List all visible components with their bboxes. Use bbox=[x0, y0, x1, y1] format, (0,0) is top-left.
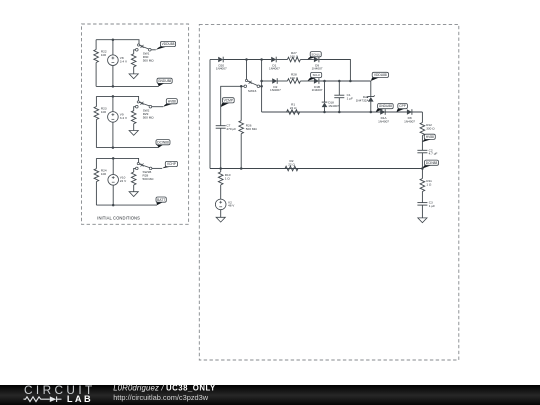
node R26 top junction bbox=[240, 85, 243, 88]
wire sub1 bottom rail bbox=[96, 85, 159, 87]
wire sub2 top rail bbox=[96, 96, 138, 101]
diode D18 bbox=[322, 103, 328, 108]
switch SW1B bbox=[136, 167, 139, 170]
capacitor C3 bbox=[417, 202, 427, 204]
node row3 C1 junction bbox=[338, 111, 341, 114]
voltage source V10 bbox=[108, 175, 119, 186]
diode D1A bbox=[380, 109, 385, 115]
ground sub1 bbox=[129, 74, 138, 79]
node row2 row1 junction bbox=[349, 80, 352, 83]
wire C3 to ground bbox=[421, 205, 423, 218]
wire row1 left segment bbox=[210, 59, 218, 61]
wire sub1 top rail bbox=[96, 40, 139, 44]
wire R28 to ground bbox=[133, 185, 135, 192]
wire V9 bottom bbox=[112, 122, 114, 148]
node sub3 top junction bbox=[112, 157, 115, 160]
footer bar bbox=[0, 385, 540, 405]
net flag DCIN88 left bbox=[156, 145, 163, 148]
wire sub3 left branch top bbox=[95, 158, 97, 168]
resistor R27 bbox=[287, 57, 300, 62]
diode D20 bbox=[218, 57, 223, 63]
wire row2 right segment bbox=[319, 80, 371, 82]
wire sub1 left branch bottom bbox=[95, 63, 97, 87]
net flag GNDU88 left bbox=[157, 83, 164, 86]
wire row1 right segment to corner bbox=[319, 60, 350, 82]
node bottom rail C7 junction bbox=[219, 167, 222, 170]
wire D21 top bbox=[370, 81, 372, 97]
node row2 D18 junction bbox=[323, 80, 326, 83]
wire row2 D2 to R28 bbox=[278, 80, 288, 82]
wire bottom rail bbox=[210, 168, 422, 170]
main circuit dashed box bbox=[199, 24, 459, 360]
net flag VCMP bbox=[221, 103, 230, 107]
wire V8 top bbox=[112, 40, 114, 55]
resistor R30 bbox=[131, 54, 136, 67]
wire row3 corner down bbox=[421, 112, 423, 123]
wire SW2 right stub bbox=[152, 106, 163, 108]
voltage source V2 bbox=[215, 199, 226, 210]
net flag BATT left bbox=[156, 202, 163, 205]
resistor R2 bbox=[285, 166, 298, 171]
ground sub2 bbox=[129, 131, 138, 136]
wire R10 to V2 bbox=[220, 185, 222, 199]
wire D18 top bbox=[324, 81, 326, 102]
ground V2 bbox=[216, 217, 225, 222]
net flag HV88 left bbox=[163, 104, 174, 107]
net flag SCALU bbox=[307, 57, 317, 60]
net flag DCIN88 main bbox=[422, 165, 432, 169]
wire C1 bottom bbox=[338, 98, 340, 112]
initial conditions dashed box bbox=[82, 24, 189, 224]
resistor R1 bbox=[287, 110, 300, 115]
wire DCIN to R11 bbox=[421, 169, 423, 179]
wire C2 to rail bbox=[421, 153, 423, 169]
node row1 bus junction bbox=[260, 58, 263, 61]
wire V2 to ground bbox=[220, 210, 222, 218]
wire V10 top bbox=[112, 158, 114, 174]
node bottom rail R26 junction bbox=[240, 167, 243, 170]
switch SW2 bbox=[136, 105, 139, 108]
resistor R22 bbox=[94, 50, 99, 63]
diode D2 bbox=[272, 78, 277, 84]
wire row2 R28 to D1B bbox=[300, 80, 314, 82]
wire sub2 left branch bottom bbox=[95, 120, 97, 148]
wire R12 to C2 bbox=[421, 136, 423, 151]
wire left vertical rail bbox=[209, 60, 211, 169]
zener diode D21 bbox=[368, 97, 374, 102]
ground output bbox=[418, 218, 427, 223]
ground sub3 bbox=[129, 192, 138, 197]
node row3 D21 junction bbox=[370, 111, 373, 114]
resistor R26 bbox=[239, 121, 244, 134]
net flag GNDU88 main bbox=[376, 108, 385, 112]
svg-text:L0R0driguez / UC38_ONLY: L0R0driguez / UC38_ONLY bbox=[113, 384, 216, 393]
wire sub3 bottom rail bbox=[96, 204, 157, 206]
net flag VDDU88 main bbox=[371, 77, 380, 81]
node sub3 bottom junction bbox=[112, 204, 115, 207]
resistor R23 bbox=[94, 107, 99, 120]
diode D9 bbox=[314, 57, 319, 63]
node row1 switch feed junction bbox=[245, 58, 248, 61]
wire row2 left segment bbox=[262, 80, 273, 82]
logo resistor doodle bbox=[24, 397, 50, 402]
wire R29 to ground bbox=[133, 124, 135, 131]
wire SW16 left to VCMP node bbox=[221, 86, 244, 125]
node sub2 top junction bbox=[112, 95, 115, 98]
net flag HV88 main bbox=[422, 139, 431, 142]
diode D1 bbox=[271, 57, 276, 63]
wire R11 to C3 bbox=[421, 192, 423, 203]
wire sub3 left branch bottom bbox=[95, 182, 97, 206]
wire row3 rail bbox=[262, 111, 423, 113]
resistor R28 bbox=[287, 79, 300, 84]
wire sub2 left branch top bbox=[95, 96, 97, 106]
wire SW1 right stub bbox=[151, 49, 156, 51]
capacitor C2 bbox=[417, 149, 427, 151]
wire SW16 right stub bbox=[260, 85, 262, 87]
wire C7 bottom bbox=[220, 128, 222, 168]
wire R26 top bbox=[240, 86, 242, 120]
voltage source V8 bbox=[108, 55, 119, 66]
diode D1B bbox=[314, 78, 319, 84]
node row2 C1 junction bbox=[338, 80, 341, 83]
node DCIN88 junction bbox=[421, 167, 424, 170]
wire V9 top bbox=[112, 96, 114, 111]
wire bus vertical bbox=[261, 60, 263, 113]
wire sub1 left branch top bbox=[95, 40, 97, 50]
resistor R28 initial bbox=[131, 172, 136, 185]
wire V10 bottom bbox=[112, 185, 114, 205]
wire D21 bottom bbox=[370, 102, 372, 112]
wire rail to R10 bbox=[220, 169, 222, 172]
svg-text:LAB: LAB bbox=[67, 394, 93, 404]
node sub1 bottom junction bbox=[112, 85, 115, 88]
resistor R12 bbox=[420, 123, 425, 136]
switch SW16 bbox=[244, 85, 247, 88]
wire R30 to ground bbox=[133, 67, 135, 74]
node row2 bus junction bbox=[260, 80, 263, 83]
wire C1 top bbox=[338, 81, 340, 95]
node sub1 top junction bbox=[112, 38, 115, 41]
switch SW1 bbox=[136, 49, 139, 52]
node row3 D18 junction bbox=[323, 111, 326, 114]
wire SW2 left to R29 bbox=[134, 107, 136, 111]
wire sub3 top rail bbox=[96, 158, 138, 162]
wire row1 D1 to R27 bbox=[277, 59, 288, 61]
wire R26 bottom bbox=[240, 134, 242, 169]
svg-text:http://circuitlab.com/c3pzd3w: http://circuitlab.com/c3pzd3w bbox=[113, 393, 209, 402]
wire V8 bottom bbox=[112, 65, 114, 86]
resistor R11 bbox=[420, 179, 425, 192]
wire row1 segment D20 to D1 bbox=[224, 59, 272, 61]
voltage source V9 bbox=[108, 112, 119, 123]
net flag VDDU88 bbox=[156, 46, 168, 50]
wire SW16 feed bbox=[246, 60, 248, 80]
capacitor C7 bbox=[216, 125, 226, 127]
net flag CPP bbox=[397, 108, 406, 112]
wire SW1 left to R30 bbox=[134, 50, 136, 54]
wire SW1B left to R28 bbox=[134, 168, 136, 172]
wire SW1B right stub bbox=[152, 167, 162, 169]
diode D8 bbox=[407, 109, 412, 115]
resistor R24 bbox=[94, 169, 99, 182]
net flag SCLU bbox=[307, 77, 318, 81]
capacitor C1 bbox=[334, 94, 344, 96]
node sub2 bottom junction bbox=[112, 146, 115, 149]
resistor R29 bbox=[131, 111, 136, 124]
net flag VCHP left bbox=[162, 166, 173, 168]
wire sub2 bottom rail bbox=[96, 147, 158, 149]
wire row1 R27 to D9 bbox=[300, 59, 314, 61]
logo diode doodle bbox=[50, 396, 57, 402]
node SW16 right junction bbox=[260, 85, 263, 88]
resistor R10 bbox=[218, 172, 223, 185]
wire D18 bottom bbox=[324, 107, 326, 112]
